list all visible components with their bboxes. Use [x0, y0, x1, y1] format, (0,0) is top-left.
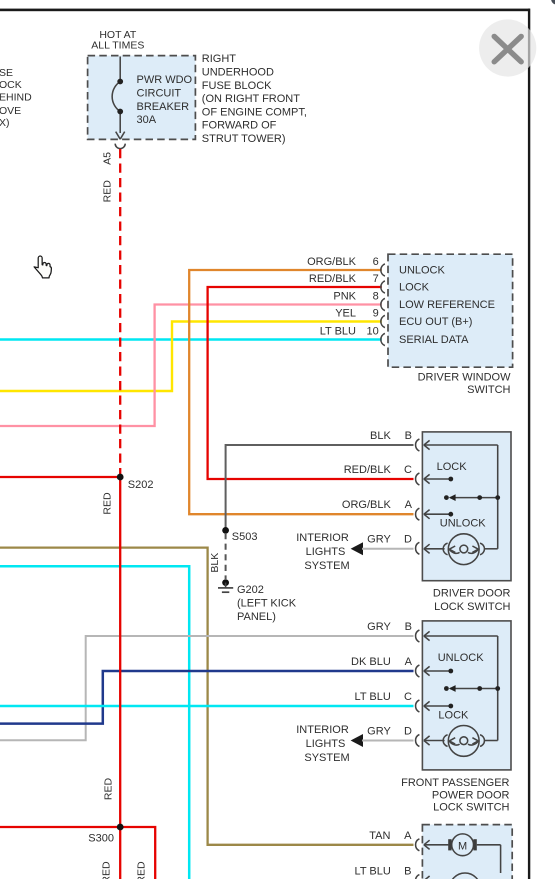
splice S202: [117, 474, 124, 481]
svg-text:OVE: OVE: [0, 105, 21, 117]
pink wire PNK to window pin 8: [0, 305, 382, 427]
passenger lock wiper row: [444, 685, 500, 692]
svg-text:INTERIOR: INTERIOR: [296, 724, 349, 736]
svg-text:S503: S503: [232, 531, 258, 543]
svg-text:EHIND: EHIND: [0, 92, 32, 104]
svg-text:X): X): [0, 117, 10, 129]
svg-text:PWR WDO: PWR WDO: [137, 74, 193, 86]
window pin 6: [307, 256, 385, 276]
svg-text:DK BLU: DK BLU: [351, 656, 391, 668]
HOT AT ALL TIMES label: [91, 29, 144, 52]
splice S503: [222, 527, 229, 534]
frame right border: [528, 9, 530, 879]
svg-text:30A: 30A: [137, 114, 157, 126]
svg-text:LOCK: LOCK: [437, 461, 468, 473]
red wire S300 right branch down: [120, 827, 155, 879]
red wire S300 to left edge: [0, 826, 120, 828]
gray wire GRY driver lock pin D: [362, 548, 414, 550]
svg-text:SE: SE: [0, 67, 13, 79]
svg-text:LOW REFERENCE: LOW REFERENCE: [399, 299, 495, 311]
svg-text:BREAKER: BREAKER: [137, 101, 190, 113]
window pin 7: [309, 273, 385, 293]
svg-text:UNLOCK: UNLOCK: [399, 265, 446, 277]
svg-text:OF ENGINE COMPT,: OF ENGINE COMPT,: [202, 106, 307, 118]
svg-text:RED: RED: [103, 777, 115, 800]
actuator pin B: [355, 866, 420, 879]
actuator pin B arrow: [424, 876, 449, 879]
svg-text:M: M: [458, 840, 467, 852]
svg-text:UNLOCK: UNLOCK: [438, 652, 485, 664]
svg-text:7: 7: [373, 273, 379, 285]
svg-text:DRIVER DOOR: DRIVER DOOR: [433, 587, 511, 599]
svg-text:LOCK SWITCH: LOCK SWITCH: [434, 601, 510, 613]
svg-text:ECU OUT (B+): ECU OUT (B+): [399, 316, 472, 328]
svg-text:CIRCUIT: CIRCUIT: [137, 88, 182, 100]
passenger lock contact dot A: [448, 669, 453, 674]
svg-text:A: A: [405, 499, 413, 511]
svg-text:UNDERHOOD: UNDERHOOD: [202, 67, 274, 79]
front passenger door lock switch box: [422, 621, 511, 770]
interior lights system label passenger: [296, 724, 349, 764]
svg-text:LIGHTS: LIGHTS: [306, 546, 346, 558]
svg-text:C: C: [404, 464, 412, 476]
RIGHT UNDERHOOD FUSE BLOCK note: [202, 53, 307, 145]
driver window switch caption: [418, 371, 512, 396]
red dashed wire breaker to S202: [119, 149, 121, 477]
black dashed wire S503 to ground: [225, 533, 227, 579]
window switch pin functions: [399, 265, 495, 347]
svg-text:8: 8: [373, 290, 379, 302]
svg-text:GRY: GRY: [367, 621, 391, 633]
driver lock pin D: [367, 533, 419, 554]
svg-text:9: 9: [373, 307, 379, 319]
tan wire TAN to actuator pin A: [0, 548, 414, 845]
driver lock pin B: [370, 430, 419, 451]
svg-text:A: A: [404, 830, 412, 842]
connector A5 half-circle: [115, 144, 125, 149]
svg-text:YEL: YEL: [335, 307, 356, 319]
svg-text:LT BLU: LT BLU: [320, 325, 356, 337]
svg-text:S202: S202: [128, 479, 154, 491]
driver lock lamp: [443, 534, 498, 565]
passenger lock pin D: [367, 726, 419, 747]
svg-text:LOCK: LOCK: [438, 710, 469, 722]
G202 label: [237, 584, 297, 623]
svg-text:FUSE BLOCK: FUSE BLOCK: [202, 80, 272, 92]
ground G202 symbol: [218, 579, 233, 592]
svg-text:PANEL): PANEL): [237, 611, 276, 623]
interior lights system label driver: [296, 532, 349, 572]
svg-text:ORG/BLK: ORG/BLK: [307, 256, 357, 268]
svg-text:10: 10: [367, 325, 379, 337]
svg-text:RED: RED: [101, 861, 113, 879]
mouse cursor: [34, 256, 51, 278]
actuator lamp partial: [450, 873, 481, 879]
yellow wire YEL to window pin 9: [0, 322, 382, 392]
passenger lock contact dot C: [448, 704, 453, 709]
svg-text:B: B: [405, 621, 412, 633]
svg-text:LT BLU: LT BLU: [355, 691, 391, 703]
svg-text:FORWARD OF: FORWARD OF: [202, 120, 277, 132]
svg-text:(ON RIGHT FRONT: (ON RIGHT FRONT: [202, 93, 300, 105]
svg-text:SYSTEM: SYSTEM: [304, 752, 349, 764]
svg-text:INTERIOR: INTERIOR: [296, 532, 349, 544]
driver lock pin A: [342, 499, 420, 520]
svg-text:POWER DOOR: POWER DOOR: [432, 789, 510, 801]
red wire from left to S202: [0, 476, 120, 478]
circuit breaker symbol: [112, 57, 125, 140]
frame top border: [0, 9, 530, 12]
driver lock switch internals: [424, 440, 498, 553]
cyan wire LT BLU vertical to bottom: [0, 566, 189, 879]
driver window switch box: [388, 254, 513, 367]
svg-text:ORG/BLK: ORG/BLK: [342, 499, 392, 511]
passenger lock switch internals: [424, 631, 498, 745]
window pin 8: [333, 290, 385, 310]
left fuse block note clipped: [0, 67, 32, 129]
page corner mark: [551, 0, 555, 5]
svg-text:FRONT PASSENGER: FRONT PASSENGER: [401, 777, 509, 789]
PWR WDO CIRCUIT BREAKER 30A label: [137, 74, 193, 126]
svg-text:SYSTEM: SYSTEM: [304, 560, 349, 572]
svg-text:(LEFT KICK: (LEFT KICK: [237, 598, 297, 610]
svg-text:RED: RED: [136, 861, 148, 879]
red wire RED/BLK window pin 7 to driver lock pin C: [208, 287, 414, 479]
svg-text:TAN: TAN: [369, 830, 390, 842]
svg-text:B: B: [404, 866, 411, 878]
driver door lock switch box: [422, 432, 511, 581]
svg-text:OCK: OCK: [0, 79, 22, 91]
window pin 10: [320, 325, 385, 345]
svg-text:D: D: [404, 726, 412, 738]
svg-text:RIGHT: RIGHT: [202, 53, 237, 65]
svg-text:SWITCH: SWITCH: [467, 384, 510, 396]
svg-text:A5: A5: [102, 152, 114, 165]
cyan wire LT BLU to passenger pin C: [0, 705, 414, 708]
passenger lock pin B: [367, 621, 419, 642]
svg-text:ALL TIMES: ALL TIMES: [91, 40, 144, 52]
svg-text:LIGHTS: LIGHTS: [306, 738, 346, 750]
interior lights arrow passenger: [351, 734, 363, 747]
passenger lock pin C: [355, 691, 420, 712]
driver door lock switch caption: [433, 587, 511, 613]
breaker terminal dot bottom: [117, 109, 123, 115]
close button: [479, 19, 536, 76]
svg-text:BLK: BLK: [370, 430, 391, 442]
svg-text:GRY: GRY: [367, 726, 391, 738]
svg-text:RED/BLK: RED/BLK: [309, 273, 357, 285]
passenger lock lamp: [443, 726, 498, 757]
front passenger power door lock switch caption: [401, 777, 509, 814]
passenger lock pin A: [351, 656, 419, 677]
actuator motor M: [424, 834, 501, 873]
svg-text:SERIAL DATA: SERIAL DATA: [399, 334, 469, 346]
svg-text:RED/BLK: RED/BLK: [344, 464, 392, 476]
red wire S300 down to bottom: [119, 827, 121, 879]
orange wire ORG/BLK window pin 6 to driver lock pin A: [189, 270, 413, 514]
svg-text:LOCK SWITCH: LOCK SWITCH: [433, 802, 509, 814]
svg-text:BLK: BLK: [209, 553, 221, 573]
window pin 9: [335, 307, 385, 327]
svg-text:LOCK: LOCK: [399, 282, 430, 294]
door lock actuator box: [422, 825, 512, 879]
svg-text:UNLOCK: UNLOCK: [440, 517, 487, 529]
cyan wire LT BLU to window pin 10: [0, 338, 382, 341]
interior lights arrow driver: [351, 542, 363, 555]
dark blue wire DK BLU to passenger pin A: [0, 671, 414, 724]
svg-text:PNK: PNK: [333, 290, 356, 302]
splice S300: [117, 824, 124, 831]
actuator pin A: [369, 830, 419, 851]
svg-text:B: B: [405, 430, 412, 442]
svg-text:G202: G202: [237, 584, 264, 596]
gray wire BLK driver lock pin B to S503: [226, 445, 414, 530]
gray wire GRY to passenger pin B: [0, 636, 414, 740]
driver lock pin C: [344, 464, 420, 485]
svg-text:S300: S300: [88, 832, 114, 844]
driver lock contact dot C: [448, 477, 453, 482]
svg-text:STRUT TOWER): STRUT TOWER): [202, 133, 286, 145]
breaker terminal dot top: [117, 79, 123, 85]
fuse block box: [88, 56, 196, 140]
gray wire GRY passenger lock pin D: [362, 740, 414, 742]
svg-text:A: A: [405, 656, 413, 668]
svg-text:GRY: GRY: [367, 533, 391, 545]
driver lock wiper row: [444, 494, 500, 501]
svg-text:6: 6: [373, 256, 379, 268]
svg-text:DRIVER WINDOW: DRIVER WINDOW: [418, 371, 512, 383]
svg-text:RED: RED: [102, 180, 114, 203]
red wire S202 to S300: [119, 477, 121, 827]
svg-text:C: C: [404, 691, 412, 703]
svg-text:RED: RED: [102, 492, 114, 515]
svg-text:D: D: [404, 533, 412, 545]
svg-text:LT BLU: LT BLU: [355, 866, 391, 878]
driver lock contact dot A: [448, 512, 453, 517]
